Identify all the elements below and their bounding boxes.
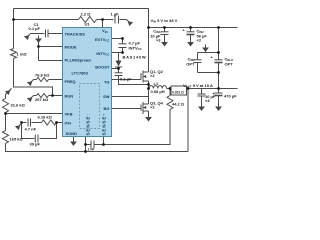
svg-text:×2: ×2 [197, 38, 202, 43]
svg-text:FREQ: FREQ [65, 79, 76, 84]
svg-text:VIN: VIN [102, 28, 107, 34]
svg-text:470 µF: 470 µF [224, 94, 237, 99]
svg-text:76.8 kΩ: 76.8 kΩ [35, 73, 50, 78]
svg-text:0.1 µF: 0.1 µF [29, 26, 41, 31]
svg-text:L1: L1 [154, 81, 159, 86]
svg-text:RUN: RUN [65, 94, 74, 99]
svg-text:PLLIN/Spread: PLLIN/Spread [65, 58, 92, 63]
svg-text:×2: ×2 [150, 73, 155, 78]
svg-text:U1: U1 [85, 22, 91, 27]
svg-text:VOUT 5 V at 15 A: VOUT 5 V at 15 A [183, 83, 213, 89]
svg-text:BOOST: BOOST [95, 65, 110, 70]
svg-text:39 pF: 39 pF [30, 142, 41, 147]
svg-text:×3: ×3 [205, 98, 210, 103]
svg-text:1 mΩ: 1 mΩ [17, 52, 28, 57]
svg-text:VIN 5 V to 38 V: VIN 5 V to 38 V [151, 18, 178, 24]
svg-text:0.001 Ω: 0.001 Ω [172, 91, 184, 95]
svg-text:INTVCC: INTVCC [96, 51, 109, 57]
svg-text:165 kΩ: 165 kΩ [10, 137, 24, 142]
svg-text:0.1 µF: 0.1 µF [120, 77, 132, 82]
svg-text:BAS140W: BAS140W [123, 54, 147, 59]
svg-text:MODE: MODE [65, 45, 77, 50]
svg-text:INTVCC: INTVCC [129, 46, 142, 52]
svg-text:267 kΩ: 267 kΩ [35, 97, 49, 102]
svg-text:6.19 kΩ: 6.19 kΩ [38, 115, 53, 120]
svg-text:EXTVCC: EXTVCC [95, 37, 110, 43]
svg-text:SENSE+: SENSE+ [102, 113, 107, 136]
svg-text:31.6 kΩ: 31.6 kΩ [11, 103, 26, 108]
svg-text:1 nF: 1 nF [88, 148, 95, 152]
svg-text:0.68 µH: 0.68 µH [151, 89, 165, 94]
svg-text:SW: SW [103, 94, 110, 99]
svg-text:44.2 Ω: 44.2 Ω [172, 102, 185, 107]
svg-text:OPT: OPT [225, 62, 234, 67]
svg-text:4.7 nF: 4.7 nF [25, 127, 37, 132]
svg-text:TG: TG [104, 80, 110, 85]
svg-text:SGND: SGND [66, 131, 78, 136]
svg-text:1 µF: 1 µF [111, 12, 120, 17]
svg-text:ITH: ITH [65, 121, 72, 126]
svg-text:×2: ×2 [150, 105, 155, 110]
svg-text:OPT: OPT [186, 62, 195, 67]
svg-text:×3: ×3 [156, 38, 161, 43]
svg-text:2.2 Ω: 2.2 Ω [81, 12, 92, 17]
svg-text:TRACK/SS: TRACK/SS [65, 32, 86, 37]
svg-text:BG: BG [104, 106, 110, 111]
svg-text:SENSE–: SENSE– [86, 113, 91, 136]
svg-text:VFB: VFB [65, 112, 73, 117]
svg-text:LTC7803: LTC7803 [72, 71, 89, 76]
